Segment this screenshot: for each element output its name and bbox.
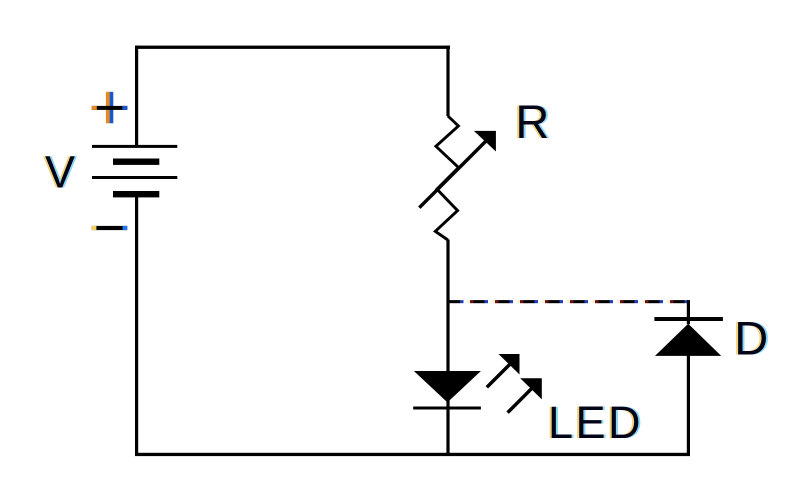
battery V plate 3 long xyxy=(92,176,177,179)
resistor R zigzag xyxy=(435,116,458,240)
LED triangle xyxy=(414,371,481,402)
svg-text:R: R xyxy=(515,95,549,148)
resistor R adjustment arrow head xyxy=(474,131,496,152)
diode D top stub wire xyxy=(687,300,690,324)
wire top horizontal xyxy=(135,46,450,49)
wire right branch upper (top rail to resistor) xyxy=(446,46,449,117)
label D xyxy=(732,312,770,365)
svg-text:LED: LED xyxy=(548,397,643,448)
LED emission arrow 1 shaft xyxy=(487,364,510,387)
wire right branch lower (resistor to bottom rail through LED) xyxy=(446,240,449,457)
label - minus sign xyxy=(92,226,127,230)
svg-text:D: D xyxy=(734,312,768,365)
diode D cathode bar xyxy=(654,317,723,321)
label V xyxy=(43,147,77,198)
dashed net from node to diode D branch xyxy=(448,300,689,303)
wire diode D branch vertical xyxy=(687,355,690,455)
label + plus sign xyxy=(92,92,128,124)
battery V plate 1 long xyxy=(92,145,177,148)
wire bottom horizontal xyxy=(135,453,690,456)
battery V plate 2 short thick xyxy=(113,159,159,165)
label LED xyxy=(546,397,645,448)
LED emission arrow 2 shaft xyxy=(508,388,532,412)
LED emission arrow 1 head xyxy=(499,354,520,375)
label R xyxy=(513,95,551,148)
diode D triangle xyxy=(655,324,721,356)
LED emission arrow 2 head xyxy=(520,378,542,399)
battery V plate 4 short thick xyxy=(113,191,159,197)
LED cathode bar xyxy=(413,407,481,410)
svg-text:V: V xyxy=(45,147,75,198)
wire left vertical upper (battery top) xyxy=(135,46,138,146)
wire left vertical lower (battery bottom to bottom rail) xyxy=(135,197,138,456)
resistor R adjustment arrow shaft xyxy=(419,140,487,208)
